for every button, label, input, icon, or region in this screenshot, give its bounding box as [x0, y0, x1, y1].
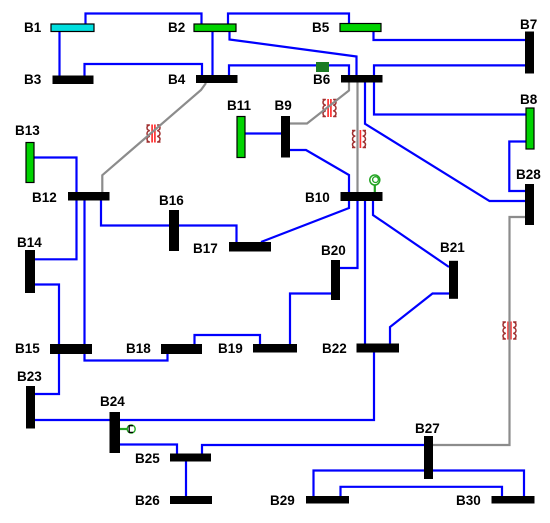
- bus B5 (generator, green): [340, 24, 381, 32]
- svg-text:B2: B2: [168, 20, 185, 35]
- svg-text:B27: B27: [415, 421, 440, 436]
- svg-text:B8: B8: [520, 92, 538, 107]
- svg-text:B21: B21: [440, 240, 465, 255]
- wire B16-B17: [179, 226, 237, 243]
- svg-text:B26: B26: [135, 493, 160, 508]
- transformer T1 on B4-B12 line: [147, 125, 161, 143]
- svg-text:B9: B9: [275, 98, 292, 113]
- wire B5-B7: [374, 32, 526, 41]
- bus B12: [68, 192, 110, 201]
- wire B4-B12 transformer line: [102, 83, 206, 192]
- wire B2-B6: [230, 32, 357, 76]
- bus B3: [53, 76, 94, 85]
- wire B3-B4: [85, 64, 203, 76]
- bus B17: [229, 242, 271, 252]
- bus B9: [281, 116, 290, 158]
- svg-text:B4: B4: [168, 72, 186, 87]
- bus B18: [161, 344, 202, 354]
- svg-text:B13: B13: [15, 123, 40, 138]
- svg-text:B10: B10: [305, 190, 330, 205]
- wire B21-B22: [390, 294, 449, 344]
- svg-text:B29: B29: [270, 493, 295, 508]
- svg-text:B14: B14: [17, 235, 42, 250]
- wire B2-B4: [211, 32, 213, 76]
- wire B25-B26: [185, 462, 187, 497]
- bus B23: [26, 386, 35, 429]
- bus B22: [357, 344, 400, 353]
- svg-text:B3: B3: [24, 72, 42, 87]
- bus B26: [170, 496, 212, 504]
- svg-text:B11: B11: [227, 98, 252, 113]
- wire B9-B11: [245, 132, 281, 134]
- bus B11 (generator, green): [237, 117, 245, 158]
- condenser symbol at B10: [370, 175, 380, 192]
- wire B8-B28: [509, 142, 526, 192]
- bus B14: [25, 250, 35, 293]
- wire B18-B19: [195, 335, 261, 344]
- bus B8 (generator, green): [526, 108, 534, 149]
- wire B6-B7: [374, 65, 525, 75]
- bus B1 (generator, cyan): [51, 24, 94, 32]
- bus B29: [306, 496, 349, 504]
- wire B23-B24: [35, 419, 110, 421]
- wire B22-B24: [120, 353, 374, 421]
- svg-text:B24: B24: [100, 394, 125, 409]
- wire B12-B14: [35, 201, 77, 260]
- bus B6: [341, 75, 383, 83]
- wire B27-B30: [433, 471, 524, 497]
- wire B6-B10 transformer line: [356, 83, 358, 193]
- wire B29-B30: [341, 487, 503, 496]
- wire B12-B15: [83, 201, 85, 345]
- bus B20: [331, 260, 340, 300]
- wire B10-B21: [373, 201, 449, 267]
- svg-text:B16: B16: [159, 193, 184, 208]
- wire B1-B2: [86, 14, 202, 25]
- wire B27-B29: [314, 471, 425, 497]
- svg-text:B23: B23: [17, 369, 42, 384]
- wire B25-B27: [202, 445, 424, 454]
- svg-text:B25: B25: [135, 451, 160, 466]
- wire B10-B22: [364, 201, 366, 344]
- wire B12-B13: [34, 158, 77, 193]
- wire B10-B20: [340, 201, 358, 268]
- transformer T2 on B6-B9 line: [323, 99, 337, 117]
- bus B7: [525, 32, 534, 74]
- bus B30: [492, 496, 535, 504]
- bus B27: [424, 436, 433, 479]
- svg-text:B30: B30: [456, 493, 481, 508]
- bus B10: [341, 192, 383, 201]
- svg-text:B18: B18: [126, 341, 151, 356]
- wire B10-B17: [261, 201, 349, 242]
- bus B25: [170, 454, 211, 462]
- wire B6-B9 transformer line: [290, 83, 349, 124]
- wire B15-B18: [85, 353, 168, 361]
- bus B24: [110, 412, 121, 453]
- transformer T3 on B6-B10 line: [352, 130, 366, 148]
- wire B15-B23: [35, 353, 59, 394]
- svg-text:B22: B22: [322, 341, 347, 356]
- bus B2 (generator, green): [194, 24, 236, 32]
- bus B21: [449, 261, 458, 299]
- condenser symbol at B24: [120, 425, 135, 433]
- svg-text:B19: B19: [218, 341, 243, 356]
- wire B28-B27 transformer line: [433, 217, 525, 445]
- svg-text:B28: B28: [516, 167, 541, 182]
- wire B6-B8: [374, 83, 526, 115]
- B6 load marker (green square): [316, 62, 329, 72]
- svg-text:B15: B15: [15, 341, 40, 356]
- bus B16: [169, 210, 179, 251]
- wire B19-B20: [290, 294, 331, 345]
- wire B4-B6: [229, 65, 349, 75]
- svg-text:B1: B1: [24, 20, 42, 35]
- svg-text:B6: B6: [313, 72, 331, 87]
- bus B28: [525, 184, 534, 225]
- bus B13 (generator, green): [26, 143, 34, 183]
- wire B14-B15: [35, 285, 59, 345]
- wire B1-B3: [58, 32, 60, 77]
- wire B2-B5: [228, 14, 349, 25]
- wire B12-B16: [101, 201, 169, 226]
- svg-text:B5: B5: [312, 20, 330, 35]
- svg-text:B12: B12: [32, 190, 57, 205]
- svg-text:B7: B7: [520, 17, 537, 32]
- bus B15: [50, 344, 92, 354]
- svg-text:B17: B17: [193, 241, 218, 256]
- transformer T4 on B28-B27 line: [503, 322, 517, 340]
- svg-text:B20: B20: [321, 243, 346, 258]
- wire B24-B25: [120, 445, 177, 454]
- wire B9-B10: [290, 150, 349, 192]
- wire B6-B28: [365, 83, 525, 202]
- bus B4: [196, 75, 238, 83]
- bus B19: [253, 344, 297, 353]
